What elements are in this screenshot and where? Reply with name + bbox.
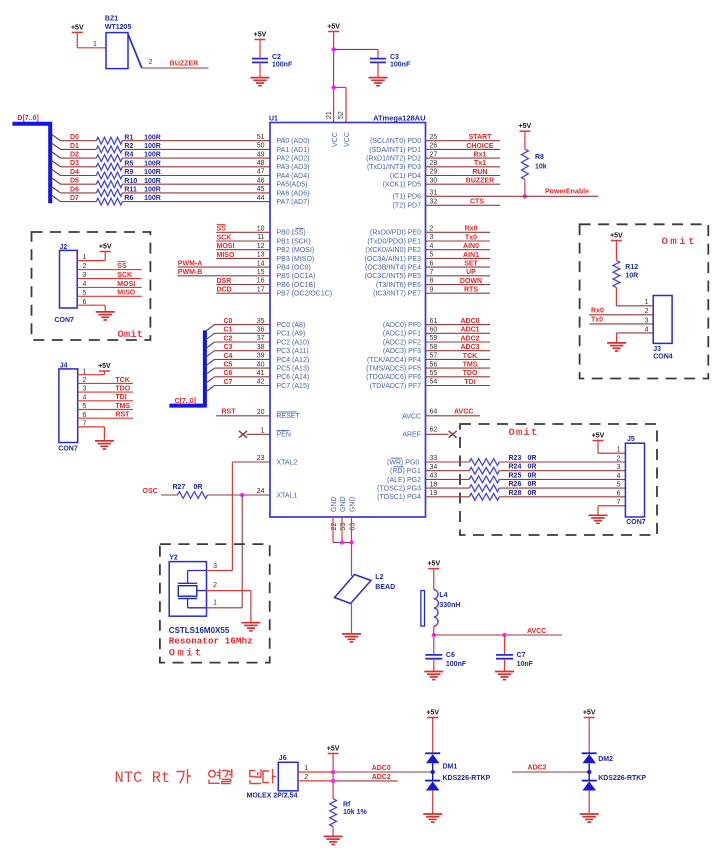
junction node DM2/ADC2: [587, 770, 591, 774]
svg-text:(ADC1) PF1: (ADC1) PF1: [383, 331, 421, 338]
svg-text:9: 9: [430, 286, 434, 293]
svg-text:0R: 0R: [528, 472, 537, 479]
svg-text:1: 1: [93, 41, 97, 48]
resistor R12 10R: [613, 260, 638, 287]
svg-text:PowerEnable: PowerEnable: [545, 189, 589, 196]
resistor R6 100R: [96, 195, 161, 205]
svg-text:AVCC: AVCC: [402, 413, 421, 420]
svg-text:C3: C3: [390, 54, 399, 61]
svg-text:2: 2: [617, 455, 621, 462]
svg-text:DCD: DCD: [217, 287, 232, 294]
svg-text:2: 2: [213, 582, 217, 589]
svg-text:AREF: AREF: [402, 432, 421, 439]
svg-text:5: 5: [430, 252, 434, 259]
wire U1 pin 9 to net RTS: [426, 292, 491, 294]
svg-text:100nF: 100nF: [446, 661, 467, 668]
resistor R1 100R: [96, 134, 161, 144]
korean note hangul glyphs: [177, 769, 277, 784]
wire U1 pin 27 to net Rx1: [426, 157, 501, 159]
svg-text:330nH: 330nH: [439, 602, 460, 609]
wire +5V to BZ1 pin 1 (vertical): [76, 32, 78, 47]
svg-text:C1: C1: [224, 327, 233, 334]
svg-text:(IC1) PD4: (IC1) PD4: [390, 173, 421, 180]
svg-text:BUZZER: BUZZER: [170, 60, 198, 67]
resistor R4 100R: [96, 152, 161, 162]
junction node at +5V/C3 branch: [331, 47, 335, 51]
+5V power symbol (J2): [99, 244, 112, 252]
svg-text:C2: C2: [224, 335, 233, 342]
svg-text:D4: D4: [70, 169, 79, 176]
svg-text:60: 60: [430, 327, 438, 334]
svg-text:C5: C5: [224, 362, 233, 369]
svg-text:VCC: VCC: [332, 132, 339, 147]
svg-text:ADC0: ADC0: [372, 765, 391, 772]
wire GND bus horizontal: [333, 542, 352, 544]
wire U1 pin 5 to net AIN1: [426, 257, 491, 259]
resistor R9 100R: [96, 169, 161, 179]
wire J2 pin 5 net MISO: [77, 295, 141, 297]
svg-text:64: 64: [430, 408, 438, 415]
svg-text:Tx1: Tx1: [474, 160, 486, 167]
wire J4 pin 6 net RST: [78, 417, 133, 419]
wire R12 to J3 pin 1: [616, 305, 653, 307]
svg-text:0R: 0R: [528, 455, 537, 462]
bus D[7..0]: [12, 124, 50, 204]
svg-text:ADC1: ADC1: [460, 327, 479, 334]
wire down to C3: [377, 49, 379, 58]
svg-text:MOSI: MOSI: [117, 281, 135, 288]
svg-text:2: 2: [149, 59, 153, 66]
wire D7 to resistor R6: [61, 201, 97, 203]
svg-text:+5V: +5V: [99, 244, 112, 251]
junction node J6 pin 1: [331, 770, 335, 774]
wire Rx0 to J3 pin 2: [589, 314, 653, 316]
svg-text:40: 40: [257, 361, 265, 368]
bus entry C4: [206, 359, 215, 365]
svg-text:MISO: MISO: [117, 290, 135, 297]
wire DM2 to ground: [588, 791, 590, 814]
svg-text:PA6 (AD6): PA6 (AD6): [277, 190, 310, 197]
svg-text:AIN1: AIN1: [463, 252, 479, 259]
wire U1 pin 8 to net DOWN: [426, 284, 491, 286]
svg-text:7: 7: [430, 269, 434, 276]
svg-text:1: 1: [304, 765, 308, 772]
wire AREF pin 62 stub: [426, 433, 449, 435]
svg-text:15: 15: [257, 269, 265, 276]
bus entry D1: [52, 143, 61, 149]
svg-text:TCK: TCK: [115, 377, 129, 384]
wire L4 to AVCC node: [433, 626, 435, 654]
wire Y2 pin 2 ground riser: [250, 591, 252, 623]
svg-text:OSC: OSC: [143, 488, 158, 495]
wire R1 to U1 pin 51: [122, 140, 270, 142]
wire D0 to resistor R1: [61, 140, 97, 142]
wire +5V to C2: [259, 40, 261, 59]
svg-text:PC2 (A10): PC2 (A10): [277, 339, 310, 346]
svg-text:Tx0: Tx0: [465, 234, 477, 241]
wire J3 pin 4 ground riser: [616, 333, 618, 343]
wire D2 to resistor R4: [61, 157, 97, 159]
wire OSC to R27: [161, 494, 178, 496]
wire R12 to J3 pin 1 vertical: [615, 287, 617, 305]
wire J4 pin 3 net TDO: [78, 391, 133, 393]
wire +5V to L4: [433, 569, 435, 590]
wire Rf to ground: [332, 827, 334, 837]
wire R28 to J5 pin 6: [499, 496, 625, 498]
svg-text:(TDO/ADC6) PF6: (TDO/ADC6) PF6: [366, 374, 421, 381]
wire XTAL2 down to Y2 pin 3: [231, 462, 233, 571]
wire junction to junction (VCC node): [333, 49, 335, 87]
wire J4 pin 5 net TMS: [78, 409, 133, 411]
wire net DCD to U1 pin 17: [216, 292, 270, 294]
svg-text:20: 20: [257, 409, 265, 416]
bus entry D6: [52, 187, 61, 193]
wire +5V to BZ1 pin 1 (horizontal): [77, 47, 106, 49]
ground (C2): [251, 78, 270, 86]
ground (C7): [495, 672, 514, 680]
svg-text:(T3/INT6) PE6: (T3/INT6) PE6: [376, 282, 421, 289]
svg-text:C2: C2: [272, 54, 281, 61]
svg-text:PA5(AD5): PA5(AD5): [277, 182, 308, 189]
svg-text:+5V: +5V: [426, 710, 439, 717]
svg-text:+5V: +5V: [327, 24, 340, 31]
svg-text:RUN: RUN: [472, 169, 487, 176]
svg-text:53: 53: [340, 523, 347, 531]
svg-text:5: 5: [617, 482, 621, 489]
svg-text:CSTLS16M0X55: CSTLS16M0X55: [169, 626, 230, 635]
svg-text:3: 3: [617, 464, 621, 471]
svg-text:+5V: +5V: [427, 561, 440, 568]
svg-text:(XCK0/AIN0) PE2: (XCK0/AIN0) PE2: [365, 247, 421, 254]
svg-text:Omit: Omit: [509, 427, 539, 439]
resistor R26 0R: [469, 481, 536, 491]
wire net DSR to U1 pin 16: [216, 284, 270, 286]
svg-text:CON7: CON7: [58, 445, 78, 452]
wire R5 to U1 pin 48: [122, 166, 270, 168]
svg-text:VCC: VCC: [344, 132, 351, 147]
bus entry D5: [52, 178, 61, 184]
bus entry D2: [52, 152, 61, 158]
wire J2 pin 1: [77, 260, 105, 262]
ground (C3): [369, 78, 388, 86]
svg-text:D0: D0: [70, 134, 79, 141]
svg-text:RST: RST: [222, 409, 237, 416]
wire branch to C3: [334, 48, 378, 50]
wire +5V to J5 pin 1 vertical: [597, 441, 599, 454]
svg-text:TCK: TCK: [463, 353, 477, 360]
ground (C6): [424, 672, 443, 680]
wire BZ1 pin 2 to BUZZER net: [142, 67, 209, 69]
wire J4 pin 2 net TCK: [78, 382, 133, 384]
svg-text:(RD) PG1: (RD) PG1: [390, 468, 421, 475]
wire GND pin 22: [332, 517, 334, 543]
wire U1 pin 29 to net RUN: [426, 175, 501, 177]
wire L2 to ground: [351, 602, 353, 634]
resistor R5 100R: [96, 160, 161, 170]
wire down to VCC pin 52: [345, 87, 347, 122]
svg-text:SET: SET: [464, 261, 478, 268]
svg-text:+5V: +5V: [583, 710, 596, 717]
svg-text:ADC0: ADC0: [460, 318, 479, 325]
wire branch to VCC pin 52: [334, 86, 346, 88]
svg-text:(RxD0/PDI) PE0: (RxD0/PDI) PE0: [370, 230, 421, 237]
svg-text:D[7..0]: D[7..0]: [17, 115, 38, 122]
omit dashed box (J3): [580, 224, 709, 378]
wire GND pin 53: [341, 517, 343, 543]
svg-text:+5V: +5V: [592, 433, 605, 440]
wire U1 pin 32 to net CTS: [426, 204, 501, 206]
svg-text:PC6 (A14): PC6 (A14): [277, 374, 310, 381]
label C6 / 100nF: [446, 652, 467, 668]
svg-text:R8: R8: [535, 154, 544, 161]
junction node GND 2: [349, 540, 353, 544]
wire U1 pin 30 to net BUZZER: [426, 183, 501, 185]
wire +5V to DM2 top diode: [588, 718, 590, 754]
inductor L2 BEAD: [335, 574, 396, 603]
svg-text:6: 6: [430, 260, 434, 267]
svg-text:PEN: PEN: [277, 432, 291, 439]
wire D3 to resistor R5: [61, 166, 97, 168]
svg-text:(TOSC1) PG4: (TOSC1) PG4: [377, 494, 421, 501]
svg-text:CTS: CTS: [470, 199, 484, 206]
svg-text:32: 32: [430, 199, 438, 206]
wire D6 to resistor R11: [61, 192, 97, 194]
svg-text:J2: J2: [60, 244, 68, 251]
wire GND down to L2: [351, 543, 353, 577]
wire J4 pin 7 ground riser: [103, 427, 105, 441]
svg-text:(TDI/ADC7) PF7: (TDI/ADC7) PF7: [370, 383, 421, 390]
svg-text:0R: 0R: [194, 484, 203, 491]
wire R27 to XTAL1 pin 24: [208, 494, 271, 496]
svg-text:56: 56: [430, 361, 438, 368]
bus entry C2: [206, 342, 215, 348]
svg-text:28: 28: [430, 160, 438, 167]
wire U1 pin 3 to net Tx0: [426, 240, 491, 242]
svg-text:XTAL2: XTAL2: [277, 459, 298, 466]
svg-text:54: 54: [430, 379, 438, 386]
svg-text:22: 22: [331, 523, 338, 531]
svg-text:Resonator 16Mhz: Resonator 16Mhz: [169, 636, 253, 646]
svg-text:PB5 (OC1A): PB5 (OC1A): [277, 273, 316, 280]
wire U1 pin 34 to R24: [426, 470, 470, 472]
wire U1 pin 55 to net TDO: [426, 376, 491, 378]
capacitor C3 100nF: [370, 59, 386, 63]
svg-text:R27: R27: [173, 484, 186, 491]
svg-text:D7: D7: [70, 195, 79, 202]
svg-text:62: 62: [430, 427, 438, 434]
svg-text:PA3 (AD3): PA3 (AD3): [277, 164, 310, 171]
svg-text:D6: D6: [70, 186, 79, 193]
svg-text:PB1 (SCK): PB1 (SCK): [277, 238, 311, 245]
no-connect X on PEN pin 1: [239, 431, 247, 438]
svg-text:BEAD: BEAD: [375, 584, 395, 591]
resistor R8 10k: [522, 149, 547, 180]
svg-text:58: 58: [430, 344, 438, 351]
svg-text:4: 4: [645, 326, 649, 333]
svg-text:R23: R23: [509, 455, 522, 462]
svg-text:34: 34: [430, 464, 438, 471]
wire J5 pin 7 ground riser: [597, 506, 599, 515]
svg-text:J3: J3: [653, 346, 661, 353]
wire AVCC pin 64: [426, 415, 481, 417]
svg-text:3: 3: [430, 234, 434, 241]
wire D4 to resistor R9: [61, 175, 97, 177]
svg-text:DOWN: DOWN: [460, 278, 482, 285]
svg-text:31: 31: [430, 190, 438, 197]
wire C3 to U1 pin 38: [215, 350, 271, 352]
wire C5 to U1 pin 40: [215, 367, 271, 369]
svg-text:XTAL1: XTAL1: [277, 492, 298, 499]
wire D1 to resistor R2: [61, 148, 97, 150]
svg-text:BUZZER: BUZZER: [466, 178, 494, 185]
wire C1 to U1 pin 36: [215, 332, 271, 334]
resistor R28 0R: [469, 490, 536, 500]
ground (J2): [96, 312, 115, 320]
svg-text:PB6 (OC1B): PB6 (OC1B): [277, 282, 316, 289]
svg-text:49: 49: [257, 151, 265, 158]
wire net PWM-A to U1 pin 14: [178, 266, 270, 268]
capacitor C6 100nF: [425, 655, 442, 659]
bus entry C3: [206, 351, 215, 357]
svg-text:6: 6: [617, 490, 621, 497]
svg-text:TDI: TDI: [115, 394, 126, 401]
svg-text:START: START: [469, 134, 493, 141]
svg-text:41: 41: [257, 370, 265, 377]
wire U1 pin 59 to net ADC2: [426, 341, 491, 343]
bus entry D4: [52, 169, 61, 175]
svg-text:GND: GND: [331, 496, 338, 512]
wire C7 to ground: [504, 659, 506, 672]
wire +5V to R12: [615, 241, 617, 261]
wire R25 to J5 pin 4: [499, 478, 625, 480]
svg-text:100nF: 100nF: [390, 61, 411, 68]
svg-text:3: 3: [213, 563, 217, 570]
wire U1 pin 43 to R25: [426, 478, 470, 480]
svg-text:1: 1: [617, 447, 621, 454]
svg-text:ADC2: ADC2: [372, 774, 391, 781]
svg-text:PA7 (AD7): PA7 (AD7): [277, 199, 310, 206]
svg-text:36: 36: [257, 327, 265, 334]
junction node GND 1: [340, 540, 344, 544]
svg-text:38: 38: [257, 344, 265, 351]
wire DM1 to ground: [432, 791, 434, 814]
resistor R25 0R: [469, 472, 536, 482]
wire U1 pin 2 to net Rx0: [426, 231, 491, 233]
svg-text:C6: C6: [224, 370, 233, 377]
svg-text:2: 2: [645, 308, 649, 315]
svg-text:(OC3A/AIN1) PE3: (OC3A/AIN1) PE3: [365, 256, 422, 263]
svg-text:J5: J5: [627, 436, 635, 443]
diode pair DM2 KDS226-RTKP: [582, 753, 647, 790]
svg-text:7: 7: [617, 499, 621, 506]
svg-text:(IC3/INT7) PE7: (IC3/INT7) PE7: [373, 291, 421, 298]
svg-text:PB7 (OC2/OC1C): PB7 (OC2/OC1C): [277, 291, 333, 298]
svg-text:R12: R12: [625, 264, 638, 271]
svg-text:C7: C7: [517, 652, 526, 659]
+5V power symbol (buzzer): [71, 24, 84, 32]
svg-text:ATmega128AU: ATmega128AU: [373, 113, 425, 122]
svg-text:(OC3C/INT5) PE5: (OC3C/INT5) PE5: [365, 273, 422, 280]
svg-text:43: 43: [430, 473, 438, 480]
inductor L4 330nH: [421, 590, 461, 627]
ground (DM2): [580, 814, 599, 822]
no-connect X on AREF pin 62: [449, 431, 457, 438]
svg-text:KDS226-RTKP: KDS226-RTKP: [443, 775, 491, 782]
svg-text:AIN0: AIN0: [463, 243, 479, 250]
wire C0 to U1 pin 35: [215, 324, 271, 326]
resistor Rf 10k 1%: [330, 799, 368, 827]
svg-text:10: 10: [257, 226, 265, 233]
junction node XTAL1/Y2: [240, 493, 244, 497]
wire U1 pin 19 to R28: [426, 496, 470, 498]
junction node DM1/ADC0: [431, 770, 435, 774]
svg-text:C0: C0: [224, 318, 233, 325]
svg-text:C3: C3: [224, 344, 233, 351]
wire J2 pin 6 ground riser: [104, 305, 106, 311]
svg-text:3: 3: [645, 317, 649, 324]
wire R6 to U1 pin 44: [122, 201, 270, 203]
svg-text:TMS: TMS: [115, 403, 130, 410]
svg-text:2: 2: [304, 774, 308, 781]
svg-text:8: 8: [430, 278, 434, 285]
svg-text:(T1) PD6: (T1) PD6: [393, 194, 422, 201]
wire AVCC node to C7: [504, 635, 506, 655]
ground (J3): [607, 343, 626, 351]
svg-text:RESET: RESET: [277, 413, 301, 420]
svg-text:(WR) PG0: (WR) PG0: [387, 459, 419, 466]
svg-text:TDO: TDO: [115, 386, 130, 393]
svg-text:AVCC: AVCC: [527, 628, 546, 635]
svg-text:(RxD1/INT2) PD2: (RxD1/INT2) PD2: [366, 156, 421, 163]
svg-text:WT1205: WT1205: [105, 24, 132, 31]
svg-text:GND: GND: [340, 496, 347, 512]
svg-text:R25: R25: [509, 472, 522, 479]
wire J4 pin 4 net TDI: [78, 400, 133, 402]
svg-text:10R: 10R: [625, 272, 638, 279]
svg-text:TDO: TDO: [463, 370, 478, 377]
svg-text:C7: C7: [224, 379, 233, 386]
bus entry D0: [52, 135, 61, 141]
svg-text:39: 39: [257, 353, 265, 360]
wire C3 to ground: [377, 62, 379, 77]
svg-text:(OC3B/INT4) PE4: (OC3B/INT4) PE4: [365, 265, 421, 272]
wire C6 to ground: [433, 659, 435, 672]
svg-text:PB0 (SS): PB0 (SS): [277, 230, 306, 237]
svg-text:R28: R28: [509, 490, 522, 497]
wire U1 pin 58 to net ADC3: [426, 350, 491, 352]
wire U1 pin 6 to net SET: [426, 266, 491, 268]
svg-text:TMS: TMS: [463, 362, 478, 369]
omit dashed box (J2): [32, 232, 151, 340]
+5V power symbol (R8): [519, 123, 532, 131]
svg-text:Rf: Rf: [343, 802, 351, 809]
connector J5 CON7: [625, 436, 645, 526]
capacitor C7 10nF: [496, 655, 513, 659]
connector J2 CON7: [55, 244, 78, 324]
wire U1 pin 7 to net UP: [426, 275, 491, 277]
svg-text:PA2 (AD2): PA2 (AD2): [277, 156, 310, 163]
svg-text:PC5 (A13): PC5 (A13): [277, 366, 310, 373]
svg-text:23: 23: [257, 455, 265, 462]
ground (Y2): [241, 623, 260, 631]
wire net SS to U1 pin 10: [216, 231, 270, 233]
label C3 / 100nF: [390, 54, 411, 68]
svg-text:57: 57: [430, 353, 438, 360]
svg-text:+5V: +5V: [254, 32, 267, 39]
bus entry C0: [206, 325, 215, 331]
svg-text:1: 1: [213, 600, 217, 607]
svg-text:PC4 (A12): PC4 (A12): [277, 357, 310, 364]
